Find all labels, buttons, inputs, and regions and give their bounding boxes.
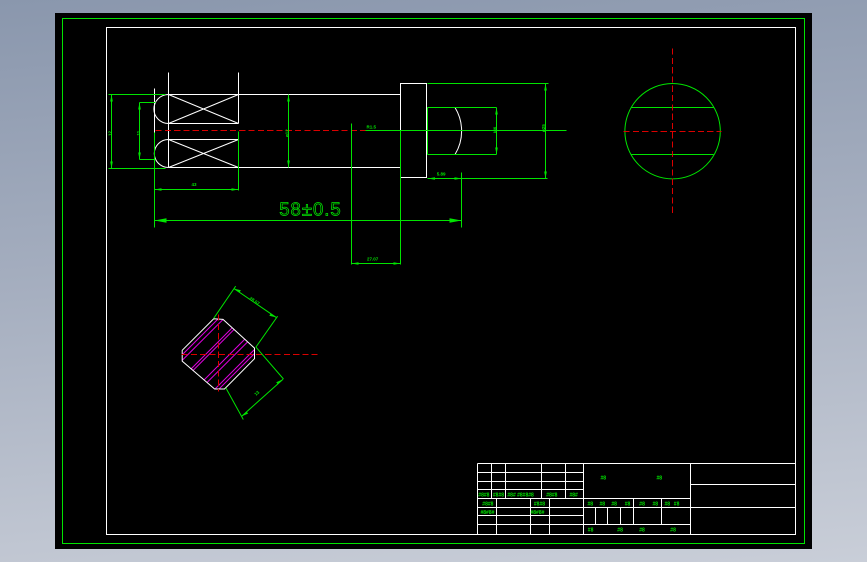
svg-text:#8: #8 <box>639 501 645 507</box>
drawing frame (white) <box>107 28 796 535</box>
svg-text:#8: #8 <box>639 528 645 534</box>
dim left outer <box>109 95 166 169</box>
dim mid diameter <box>288 95 290 168</box>
svg-text:#8: #8 <box>653 501 659 507</box>
stud left edge (green) <box>427 108 429 155</box>
svg-text:#8: #8 <box>588 501 594 507</box>
dim left inner <box>140 103 156 160</box>
section outline octagon <box>182 319 254 389</box>
svg-text:12: 12 <box>107 130 112 136</box>
svg-text:ø12: ø12 <box>284 129 289 137</box>
svg-text:#8: #8 <box>665 501 671 507</box>
svg-text:#8#8: #8#8 <box>534 501 545 507</box>
end view centerline vertical <box>672 49 674 215</box>
svg-text:#8: #8 <box>601 476 607 482</box>
svg-text:#8: #8 <box>588 528 594 534</box>
knurl cross bottom <box>169 140 239 168</box>
title block grid <box>478 464 796 535</box>
dim 58±0.5 <box>155 173 462 228</box>
svg-text:#8#8: #8#8 <box>493 493 504 499</box>
svg-text:#8: #8 <box>670 528 676 534</box>
text 58±0.5 <box>279 199 341 220</box>
dim stud diameter <box>496 108 498 155</box>
section centerline horizontal <box>182 354 318 356</box>
svg-text:#8#8#: #8#8# <box>481 510 495 516</box>
head bottom cap arc <box>154 140 168 168</box>
knurl cross top <box>169 95 239 124</box>
shaft body outline <box>169 95 401 168</box>
svg-text:#8: #8 <box>617 528 623 534</box>
flange <box>401 84 427 178</box>
svg-text:R1.5: R1.5 <box>367 125 377 130</box>
section dim lower <box>226 347 284 419</box>
svg-text:43: 43 <box>192 182 198 187</box>
label R <box>367 125 377 130</box>
drawing border (green) <box>63 19 805 544</box>
svg-text:M6: M6 <box>493 126 498 133</box>
end view chord top <box>632 107 714 109</box>
svg-text:#8: #8 <box>600 501 606 507</box>
dim dome length <box>428 178 548 180</box>
dome arc <box>455 108 462 155</box>
centerline red dashed <box>156 130 366 132</box>
svg-text:13: 13 <box>253 389 260 396</box>
svg-text:#8: #8 <box>657 476 663 482</box>
svg-text:#8#8#: #8#8# <box>531 510 545 516</box>
section centerline vertical <box>218 315 220 392</box>
svg-text:58±0.5: 58±0.5 <box>279 199 341 220</box>
svg-text:#8#8: #8#8 <box>478 493 489 499</box>
svg-text:28.07: 28.07 <box>248 296 261 307</box>
svg-text:11: 11 <box>136 130 141 135</box>
head apex line <box>154 89 156 133</box>
head top cap arc <box>154 95 169 124</box>
svg-text:#8: #8 <box>611 501 617 507</box>
svg-text:#8#8: #8#8 <box>546 493 557 499</box>
end view centerline horizontal <box>624 131 722 133</box>
dim flange diameter <box>428 84 549 179</box>
dim knurl length 43 <box>155 132 239 228</box>
dim 27 <box>352 124 401 265</box>
svg-text:27.07: 27.07 <box>367 256 379 261</box>
centerline green extension <box>366 130 567 132</box>
end view circle <box>625 84 720 179</box>
svg-text:#8: #8 <box>674 501 680 507</box>
svg-text:#8# #8#8#8: #8# #8#8#8 <box>507 493 534 499</box>
stud bottom line (green) <box>428 154 497 156</box>
svg-text:ø25: ø25 <box>541 124 546 132</box>
section dim upper <box>214 286 278 347</box>
stud top line (green) <box>428 107 497 109</box>
svg-text:#8#8: #8#8 <box>482 501 493 507</box>
knurl boundary lines <box>169 73 239 168</box>
title block text <box>478 476 679 534</box>
end view chord bottom <box>631 154 714 156</box>
svg-text:#8#: #8# <box>570 493 579 499</box>
svg-text:#8: #8 <box>625 501 631 507</box>
section hatch <box>142 295 313 395</box>
svg-text:5.89: 5.89 <box>437 172 446 177</box>
